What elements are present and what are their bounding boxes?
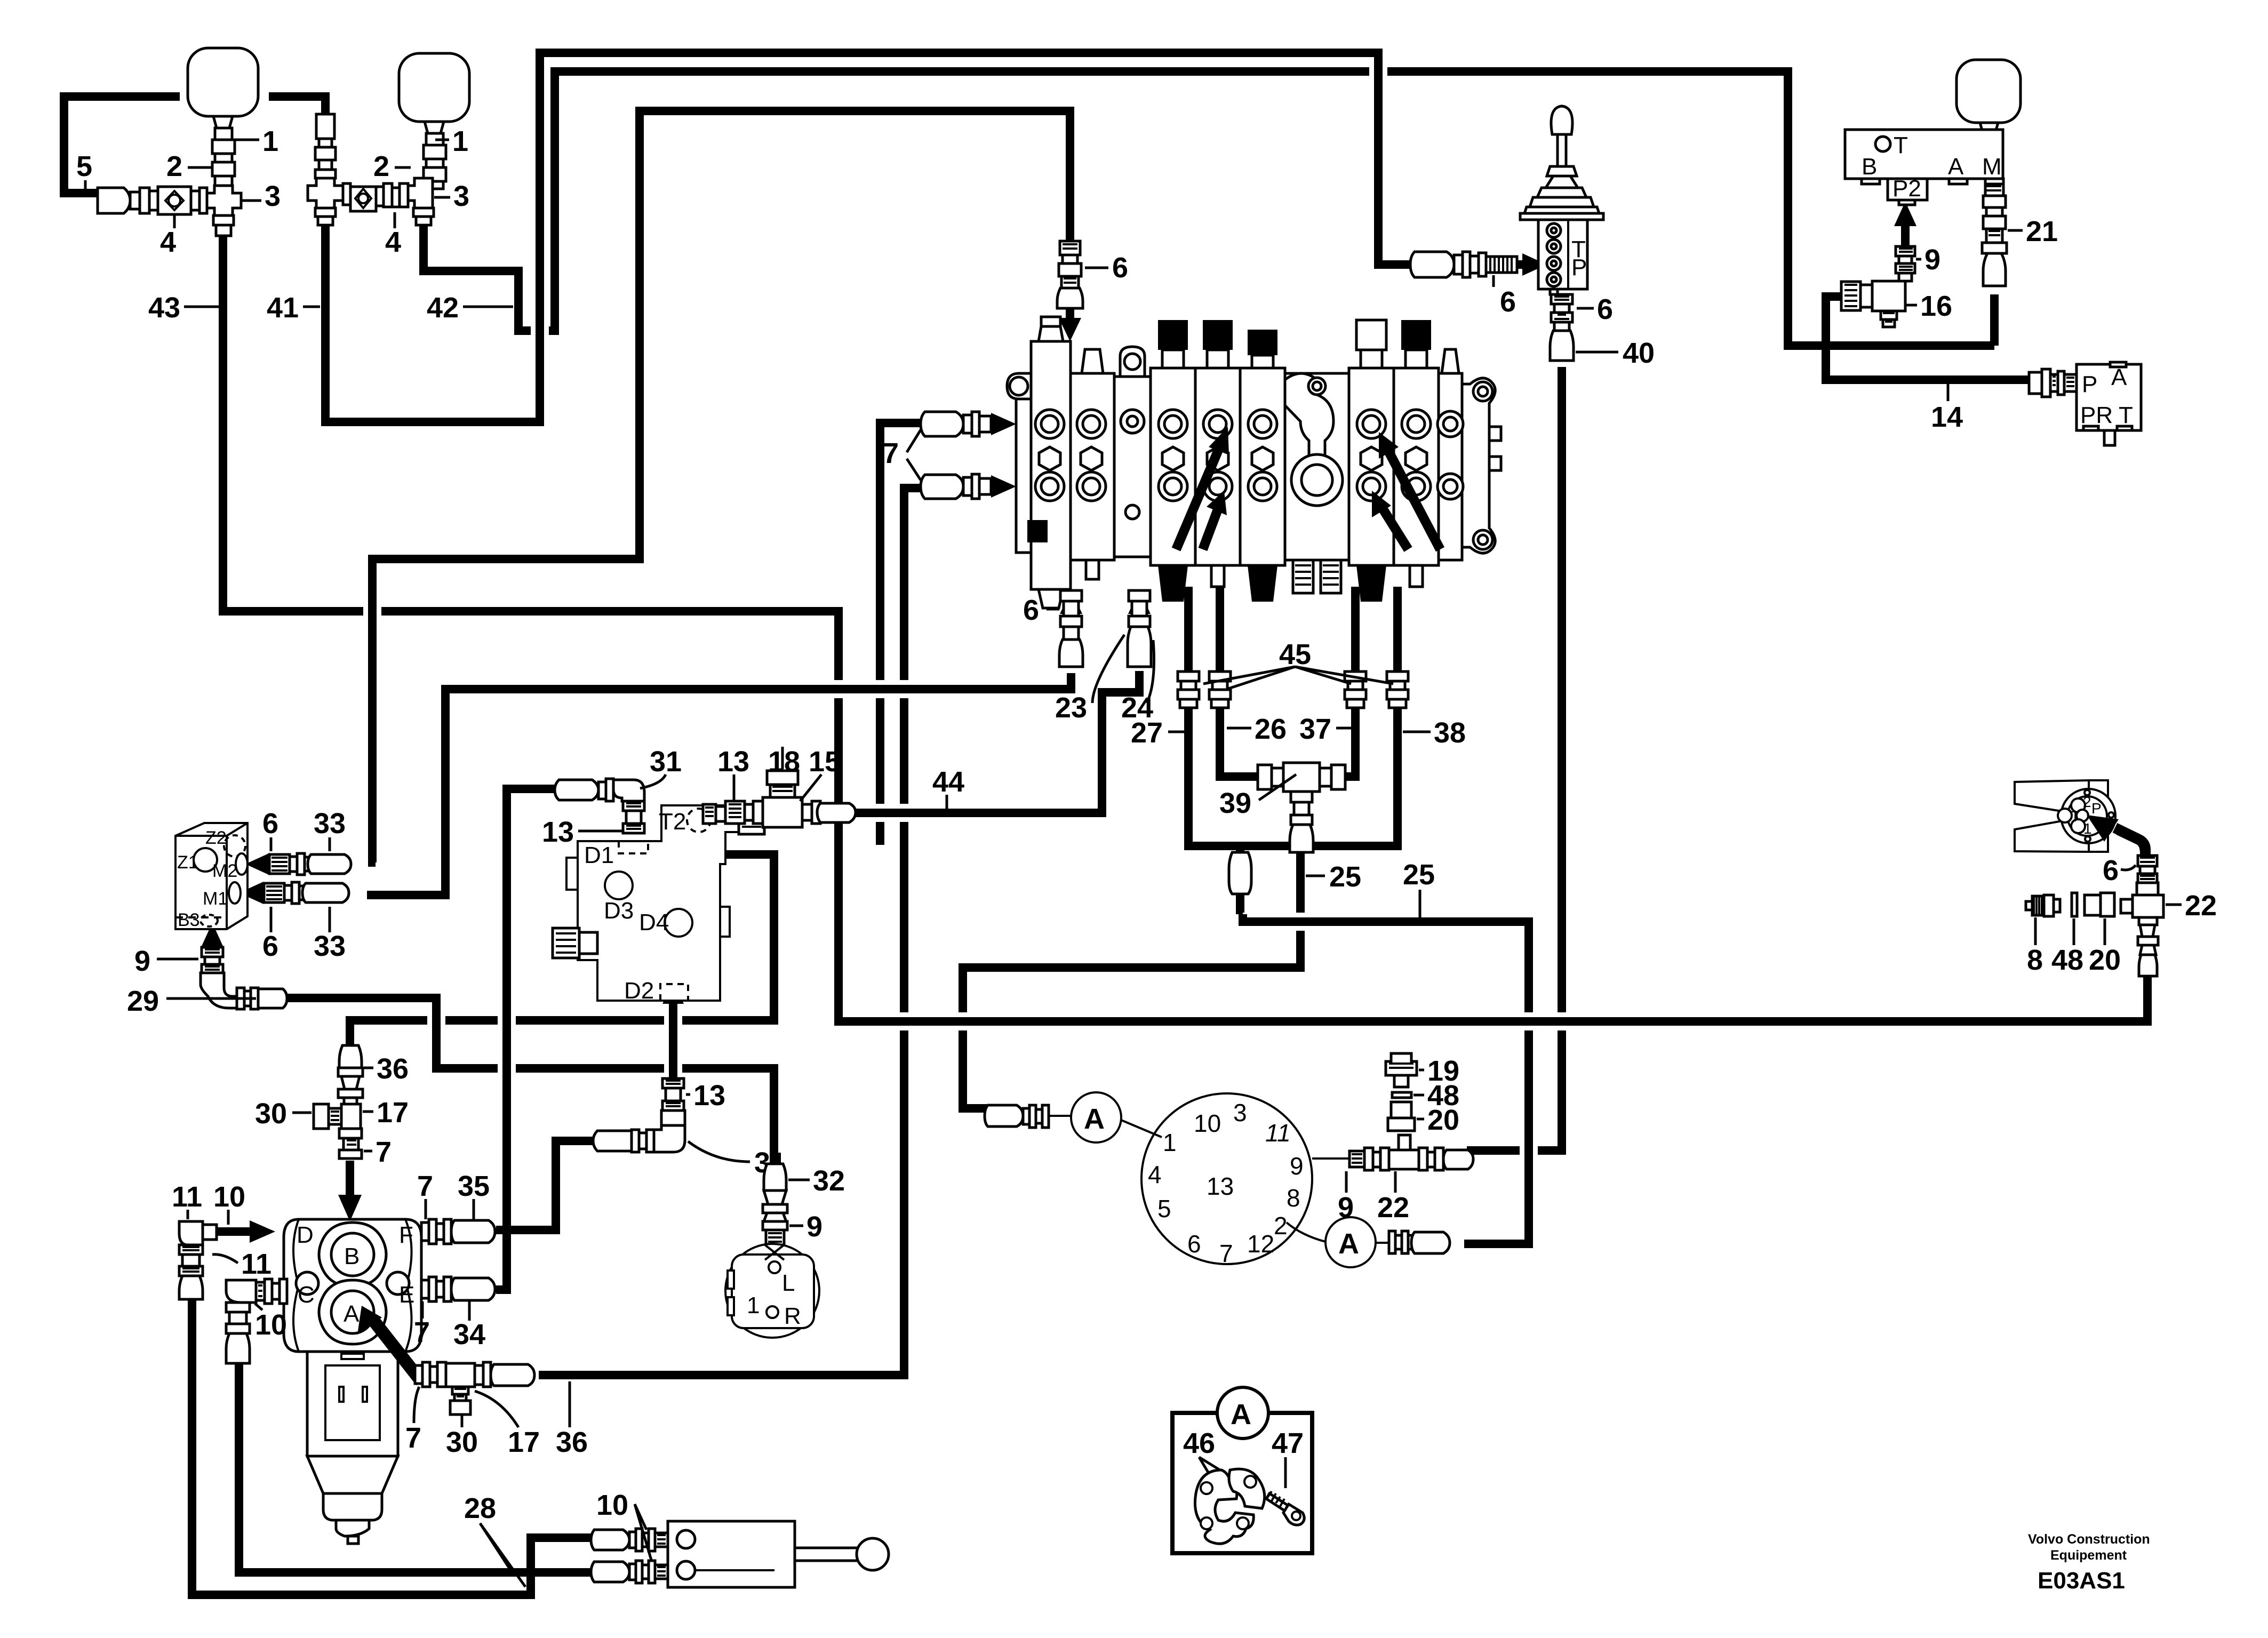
svg-text:1: 1 [262,125,278,157]
elbow 11 + fitting 10 at C port [226,1280,256,1303]
wire C-elbow column down to cylinder lower hose [239,1364,591,1572]
joystick knob [1551,106,1572,134]
hose-end into A2 [1376,1242,1389,1244]
svg-text:B3: B3 [178,910,200,930]
svg-text:2: 2 [166,150,182,182]
valve section 7 [1394,368,1439,565]
svg-text:1: 1 [2083,820,2092,837]
fitting stack below accumulator 1 [215,128,232,140]
hose 41 top L-stub [269,97,325,115]
wire hoseF-to-D2 F-port up to elbow31 [496,1141,609,1230]
gripper upper arm [2015,780,2089,812]
wire arrow into T2 diagonal [701,833,721,854]
svg-text:11: 11 [1265,1119,1291,1147]
svg-text:28: 28 [464,1492,496,1524]
pin 48 (gripper) [2072,893,2077,916]
tee 3 (group 1) [206,186,241,215]
tee 9/22 right of dial [1312,1157,1349,1160]
svg-text:T: T [2119,402,2133,428]
DBF side bolt circles [296,1272,318,1295]
wire hose lower7/A-port line x1695 (under) [539,488,992,1375]
svg-text:9: 9 [1290,1152,1304,1180]
svg-text:5: 5 [1157,1195,1171,1222]
svg-text:5: 5 [76,150,92,182]
T2 port dashed [687,809,710,832]
dial circle [1141,1093,1312,1264]
fittings below tee22 [2139,917,2157,925]
wire arrow into D2 (cased) [664,991,682,1078]
svg-text:33: 33 [314,930,346,962]
svg-text:32: 32 [813,1165,845,1197]
svg-text:D2: D2 [624,978,654,1004]
svg-text:20: 20 [2089,944,2121,976]
svg-text:6: 6 [1187,1230,1201,1258]
A coupling 2 [1325,1217,1376,1267]
svg-text:21: 21 [2026,215,2058,247]
joystick bottom hose-end 40 [1554,322,1569,331]
tee 15 with cap 18 and nipple 13 [703,804,716,824]
wire hose44 tee15-to-valve-bottom via 23/24 (cased) [855,671,1139,813]
fitting 6 chain below valve (M1 line) [1060,590,1082,601]
svg-text:6: 6 [1500,286,1516,318]
joystick boot [1546,176,1578,188]
svg-text:2: 2 [373,150,389,182]
valve internal diagonal arrow 4 [1381,507,1408,549]
svg-text:3: 3 [1233,1099,1247,1126]
svg-text:10: 10 [213,1181,245,1213]
elbow 11 + fitting 10 at D port [179,1221,203,1245]
fitting 6 (gripper) [2138,856,2157,866]
joystick ports [1547,223,1561,237]
svg-text:40: 40 [1623,337,1655,369]
svg-text:6: 6 [262,930,278,962]
svg-text:13: 13 [542,816,574,848]
svg-text:22: 22 [1377,1192,1409,1224]
svg-text:C: C [298,1282,315,1308]
wire D-elbow column down to cylinder upper hose [192,1299,591,1595]
hose-end 5 (group 1) [98,188,130,213]
svg-text:9: 9 [1924,244,1940,276]
svg-text:9: 9 [134,945,150,977]
valve port circles row2 [1035,472,1064,501]
svg-text:20: 20 [1427,1104,1459,1136]
pump L/R circle [725,1244,819,1338]
svg-text:D4: D4 [639,909,669,936]
svg-text:29: 29 [127,985,159,1017]
valve mounting ear top-left [1007,373,1031,399]
svg-text:4: 4 [1148,1161,1162,1188]
P2 sub-box [1888,179,1927,200]
svg-text:P: P [1571,254,1587,281]
B port rosette [319,1222,386,1287]
wire arrow B3 up [208,940,217,947]
arrow into flange P (over flange) [2119,830,2145,853]
valve right end plate with ears [1462,378,1495,553]
svg-text:A: A [1084,1103,1105,1135]
svg-text:T: T [2071,808,2080,825]
svg-text:P2: P2 [1892,175,1921,202]
wire hoseM1 to valve bottom fitting6 (cased) [367,673,1071,895]
svg-text:M2: M2 [212,861,237,881]
svg-text:37: 37 [1299,713,1331,745]
valve section 2 [1071,373,1114,560]
svg-text:36: 36 [556,1426,588,1458]
bolt 47 [1266,1493,1291,1513]
D1 port dashed [619,841,648,853]
wire arrow M1 west [259,889,264,897]
svg-text:34: 34 [453,1319,485,1351]
valve internal diagonal arrow 3 [1387,448,1440,549]
svg-text:4: 4 [385,226,401,258]
svg-text:9: 9 [806,1211,822,1243]
wire B-column hose from line1 corner down to B port [346,1032,354,1045]
cylinder body [668,1521,795,1587]
svg-text:4: 4 [160,226,176,258]
D-block bottom-left hex plug [553,928,579,958]
fittings below tee (hose 41 start) [315,208,336,217]
tee under acc2 stack (hose 42 start) [408,178,433,208]
riser chain group2 above tee (hose 41 column) [316,114,334,139]
wire line1 36-column to T2 (under) [350,854,774,1034]
fitting stack below accumulator 2 [426,133,443,145]
svg-text:17: 17 [508,1426,540,1458]
wire arrow fitting6-top into valve top [1066,309,1074,324]
svg-text:3: 3 [265,180,281,212]
joystick bottom fitting 6 [1550,289,1558,294]
fittings 10 lower cylinder port [591,1562,629,1582]
fitting 6 + hose-end 33 on M1 line [264,883,284,902]
A circle above box [1217,1387,1268,1439]
svg-text:1: 1 [452,125,468,157]
wire hose21 M-port drop [1990,294,1999,346]
svg-text:27: 27 [1131,717,1163,749]
elbow 31 + fitting 13 top of D-block (D1 feed) [555,780,598,800]
svg-text:45: 45 [1279,638,1311,670]
fitting 20 (dial) [1391,1102,1411,1118]
wire arrow 44-line up into valve bottom [1135,605,1144,619]
D-block left tab [566,858,578,890]
svg-text:23: 23 [1055,692,1087,724]
fittings 21 below M port [1985,184,2003,196]
valve right cone section [1439,373,1462,560]
D-block right tab [720,907,730,937]
svg-text:26: 26 [1255,713,1287,745]
valve internal diagonal arrow 1 [1176,443,1221,549]
tee 39 [1258,765,1272,789]
F-port fittings + hose-end 35 [421,1222,429,1241]
svg-text:M1: M1 [203,889,228,909]
wire hoseM2 long route to valve top (cased) [372,111,1070,862]
wire arrow M2 west [264,860,269,868]
elbow 13/31 below D-block (D2 feed) [662,1078,684,1088]
D4 port [665,909,692,937]
svg-text:15: 15 [809,746,841,778]
svg-text:7: 7 [405,1422,421,1454]
wire hose43 part2 long horizontal to gripper tee (cased) [838,981,2147,1021]
left solenoid cap under inlet [1027,520,1048,542]
svg-text:E: E [399,1282,414,1308]
cylinder rod [795,1548,858,1561]
wire hose40 joystick down-column (under) [1467,367,1562,1150]
svg-text:D3: D3 [604,898,634,924]
svg-text:10: 10 [1194,1109,1221,1137]
svg-text:30: 30 [446,1426,478,1458]
wire gripper arrow elbow from fitting6 up-left into flange P [2115,828,2145,858]
accumulator 3 [1956,60,2021,123]
svg-text:Equipement: Equipement [2050,1548,2127,1563]
check valve 4 (group 1) [199,188,207,213]
valve bracket plate [1114,377,1151,557]
PR block body [2077,364,2141,430]
svg-text:7: 7 [376,1136,392,1168]
valve port circles row1 [1035,410,1064,438]
top-right block B/T/A/M [1845,130,2003,179]
wire arrow into B port down [346,1161,354,1197]
svg-text:A: A [1948,154,1964,180]
svg-text:44: 44 [932,766,964,798]
wire gripper tee drop to hose43 corner [2143,917,2152,981]
fittings below tee 1 [213,215,234,225]
wire hose41 acc-row to joystick P (cased over hose42) [325,53,1412,422]
svg-text:36: 36 [377,1053,409,1085]
Z-block 3D box [175,823,247,929]
wire hose25b vertical from 27-38 U down (under) [1236,846,1244,922]
wire hose upper7 vertical x1650 from valve left upper port (under) [880,423,992,845]
wire A-port diagonal arrow [374,1322,421,1381]
tee 3 (group 2) [308,178,343,208]
valve hex plugs middle row [1039,447,1060,470]
valve center block [1285,373,1349,560]
svg-text:6: 6 [1597,293,1613,325]
valve bank inlet section [1031,341,1071,589]
valve internal diagonal arrow 2 [1203,507,1219,549]
fitting 9 below B3 + elbow 29 [202,947,223,957]
gripper mount plate [2089,780,2108,852]
tee 22 (gripper) [2137,883,2158,895]
svg-text:25: 25 [1329,861,1361,893]
svg-text:8: 8 [1287,1184,1300,1212]
fitting 14-chain into P [2029,372,2042,394]
svg-text:B: B [1862,154,1877,180]
valve bank left mounting plate [1016,377,1031,553]
box 46/47 [1172,1413,1312,1553]
svg-text:42: 42 [427,292,459,324]
svg-text:Z2: Z2 [205,828,227,848]
wire hose43 part1 acc1-to-corner (under) [223,235,838,1016]
svg-text:T: T [1894,132,1908,158]
fitting 6 + hose-end 33 on M2 line [269,854,290,874]
wire hose5 [64,97,180,193]
fittings 10 upper cylinder port [591,1530,629,1550]
svg-text:D1: D1 [584,842,614,868]
wire arrow M1-line up into valve bottom [1067,605,1075,619]
svg-text:A: A [1231,1399,1251,1431]
svg-text:F: F [399,1222,413,1248]
svg-text:7: 7 [1219,1240,1233,1267]
svg-text:13: 13 [693,1080,725,1112]
wire hose25a tee39-down vertical (under) [963,849,1300,1108]
svg-text:16: 16 [1920,290,1952,322]
svg-text:6: 6 [1112,252,1128,284]
hose-end 36 [339,1045,362,1068]
pin 48 (dial) [1392,1092,1411,1098]
pressure switch 19 [1386,1053,1417,1075]
valve section 6 [1349,368,1394,565]
svg-text:D: D [297,1222,314,1248]
svg-text:3: 3 [453,180,469,212]
joystick stem [1558,134,1566,166]
gripper lower arm [2015,820,2089,852]
svg-text:B: B [344,1243,360,1269]
svg-text:2: 2 [2083,794,2091,810]
wire hose42 acc2-to-right-block (under) [424,71,1994,346]
accumulator 1 [188,48,258,116]
svg-text:8: 8 [2027,944,2043,976]
wire hose16 branch up to tee16 [1826,297,1873,350]
svg-text:33: 33 [314,808,346,840]
svg-text:48: 48 [2051,944,2083,976]
wire 27-38 U connector [1188,587,1397,846]
tee 16 [1872,281,1905,311]
svg-text:10: 10 [596,1489,628,1521]
svg-text:41: 41 [267,292,299,324]
fitting 32 [764,1164,786,1190]
gripper flange circle [2061,789,2115,843]
cylinder rod ball [857,1538,889,1570]
wire arrow into joystick P east [1518,260,1527,269]
svg-text:18: 18 [768,746,800,778]
svg-text:7: 7 [414,1316,430,1348]
solenoid body below DBF [307,1352,398,1456]
fittings 45 on drop lines (4x) [1178,672,1199,708]
A-port tee 30/17 (bottom) [415,1365,422,1384]
wire 37 drop to tee39 [1333,587,1355,777]
svg-text:31: 31 [650,746,682,778]
solenoid taper [307,1456,398,1493]
wire 26 drop to tee39 [1220,587,1269,777]
svg-text:38: 38 [1434,717,1466,749]
wire hose29 B3-to-pump (cased over line1) [284,998,774,1163]
joystick body [1538,220,1587,289]
svg-text:6: 6 [2103,854,2119,886]
svg-text:E03AS1: E03AS1 [2038,1568,2125,1594]
clamp 46 (flange halves) [1195,1470,1253,1544]
svg-text:1: 1 [1163,1129,1177,1156]
DBF valve body [284,1219,421,1352]
A coupling 1 [1071,1092,1121,1142]
hose-end + fittings lower-7 into valve left [921,475,963,499]
svg-text:10: 10 [255,1309,287,1341]
check valve 4 (group 2) [343,183,350,205]
svg-text:17: 17 [377,1097,409,1129]
svg-text:14: 14 [1931,401,1963,433]
svg-text:PR: PR [2080,402,2113,428]
svg-text:A: A [1338,1228,1359,1260]
D2 port dashed [660,984,688,1001]
svg-text:P: P [2082,371,2097,397]
fitting 23/24 chain below valve [1129,590,1150,601]
wire arrow valve-left lower-7 east [991,475,1016,498]
svg-text:1: 1 [747,1292,760,1319]
svg-text:P: P [2091,800,2102,817]
svg-text:Volvo Construction: Volvo Construction [2028,1532,2150,1547]
E-port fittings + hose-end 34 [421,1280,429,1298]
svg-text:A: A [344,1301,360,1327]
svg-text:11: 11 [241,1248,271,1280]
hose-end on 25b drop [1229,852,1251,894]
svg-text:35: 35 [458,1170,490,1202]
svg-text:6: 6 [262,808,278,840]
svg-text:6: 6 [1023,594,1039,626]
joystick base plate [1520,213,1603,220]
fitting 9 (pump) [763,1204,787,1213]
fitting 6 on M2-line above valve bank [1060,241,1080,255]
pressure switch 8 [2026,901,2032,910]
svg-text:13: 13 [717,746,749,778]
D-block right hex plug at T2 [739,809,764,834]
svg-text:46: 46 [1183,1427,1215,1459]
A port rosette [319,1280,386,1344]
svg-text:43: 43 [148,292,180,324]
valve section 4 [1195,368,1240,565]
svg-text:M: M [1982,154,2002,180]
cylinder ports [677,1530,695,1548]
wire tee16 arrow up into P2 [1901,218,1910,246]
svg-text:47: 47 [1272,1427,1304,1459]
hose-end + fittings upper-7 into valve left [921,412,963,436]
wire arrow into D port east [204,1227,252,1236]
valve section 5 [1240,368,1285,565]
svg-text:2: 2 [1274,1212,1288,1240]
svg-text:9: 9 [1338,1192,1354,1224]
svg-text:13: 13 [1207,1172,1234,1200]
fitting 9 above tee16 [1896,246,1915,256]
hose-end into A1 [985,1105,1023,1126]
valve section 3 [1151,368,1195,565]
svg-text:39: 39 [1219,787,1251,819]
fitting 20 (gripper) [2085,895,2101,915]
svg-text:L: L [782,1270,795,1296]
svg-text:T2: T2 [659,809,686,835]
wire arrow valve-left upper-7 east [991,413,1016,435]
fitting 7 below tee [339,1129,362,1138]
hose-end + fitting 6 feeding joystick P [1410,252,1454,277]
svg-text:30: 30 [255,1098,287,1130]
accumulator 2 [399,53,469,122]
D-block body [578,805,739,1001]
svg-text:22: 22 [2185,890,2217,922]
svg-text:25: 25 [1403,859,1435,891]
svg-text:12: 12 [1247,1230,1274,1258]
D3 port [605,872,633,899]
svg-text:7: 7 [883,437,899,469]
wire hoseE34 E-port up to D1 elbow (cased) [496,789,559,1290]
wire hose14 branch to PR-block P [1826,341,2028,380]
svg-text:R: R [784,1303,801,1329]
svg-text:11: 11 [172,1181,202,1213]
tee 30/17 [341,1104,361,1129]
svg-text:7: 7 [417,1170,433,1202]
wire hose25b horizontal to A-coupling2 (cased over 25a vert) [1243,914,1529,1244]
